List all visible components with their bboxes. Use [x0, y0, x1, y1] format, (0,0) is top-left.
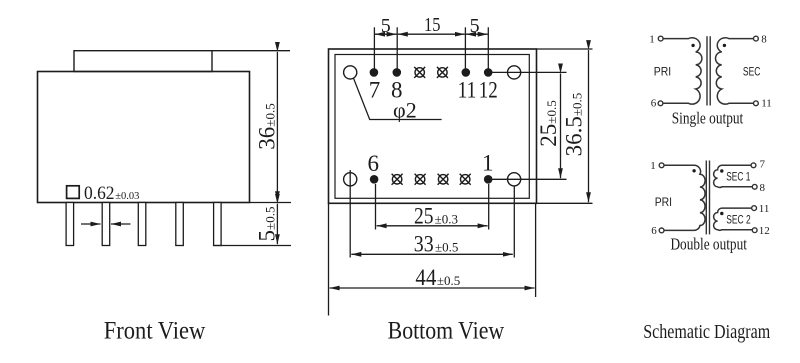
top extension lines from pins	[374, 27, 488, 70]
svg-text:6: 6	[651, 225, 657, 237]
extension line body bottom	[250, 202, 292, 204]
svg-text:0.62: 0.62	[84, 183, 115, 204]
svg-text:5: 5	[470, 15, 480, 37]
unused pin marks row1	[414, 67, 448, 78]
svg-text:Front View: Front View	[104, 318, 206, 345]
svg-text:6: 6	[651, 98, 657, 110]
primary winding T1	[663, 38, 702, 104]
svg-text:PRI: PRI	[654, 64, 671, 78]
extension line top (core)	[212, 50, 290, 52]
terminal 11	[754, 101, 759, 106]
svg-text:12: 12	[759, 225, 770, 237]
terminal 1	[658, 36, 663, 41]
core T2	[705, 161, 707, 235]
terminal 8	[754, 36, 759, 41]
terminal 1 (double)	[659, 163, 664, 168]
dimension 5 (7-8)	[375, 33, 397, 35]
pin P3 (front)	[138, 203, 146, 246]
SCHEMATIC: SINGLE OUTPUT	[658, 36, 758, 106]
terminal 12 (double)	[752, 228, 757, 233]
dimension 5±0.5	[276, 204, 278, 244]
right extension lines	[493, 49, 593, 203]
dimension 25±0.3	[377, 225, 488, 227]
svg-text:12: 12	[479, 78, 498, 103]
pin P1 (front)	[66, 203, 74, 246]
hole diameter label φ2 with leader	[354, 78, 442, 119]
svg-text:SEC 2: SEC 2	[726, 215, 751, 227]
mounting hole top-left	[344, 66, 357, 79]
dimension 33±0.5	[351, 253, 513, 255]
extension line pin bottom	[214, 245, 292, 247]
pin 12 pad	[484, 68, 493, 77]
svg-text:1: 1	[649, 33, 655, 45]
dimension 36.5±0.5 vertical	[588, 50, 590, 202]
pin 8 pad	[393, 68, 402, 77]
transformer body (front)	[38, 72, 250, 203]
pin P2 (front)	[102, 203, 110, 246]
svg-text:5: 5	[381, 15, 391, 37]
svg-text:7: 7	[369, 78, 381, 103]
mounting hole bottom-left	[344, 173, 357, 186]
terminal 11 (double)	[752, 206, 757, 211]
svg-text:SEC 1: SEC 1	[726, 172, 750, 184]
terminal 7 (double)	[751, 163, 756, 168]
svg-text:±0.5: ±0.5	[435, 240, 458, 255]
polarity dot SEC1	[720, 169, 723, 172]
pin 6 pad	[370, 175, 379, 184]
pin 1 pad	[484, 175, 493, 184]
mounting hole top-right	[507, 66, 520, 79]
pin 11 pad	[462, 68, 471, 77]
svg-text:±0.5: ±0.5	[437, 273, 460, 288]
dimension 15 (8-11)	[398, 33, 465, 35]
terminal 8 (double)	[752, 184, 757, 189]
svg-text:11: 11	[458, 78, 477, 103]
svg-text:±0.3: ±0.3	[435, 212, 458, 227]
svg-text:SEC: SEC	[743, 64, 761, 78]
svg-text:1: 1	[650, 160, 656, 172]
svg-text:φ2: φ2	[393, 98, 417, 123]
secondary winding SEC2	[714, 208, 753, 230]
svg-text:PRI: PRI	[655, 195, 672, 209]
dimension 44±0.5	[330, 287, 535, 289]
terminal 6	[658, 101, 663, 106]
polarity dot SEC2	[720, 212, 723, 215]
inner case rect	[335, 55, 529, 199]
svg-text:Bottom View: Bottom View	[388, 318, 505, 345]
polarity dot primary T1	[691, 44, 694, 47]
unused pin marks row2	[392, 174, 471, 185]
svg-text:8: 8	[760, 182, 766, 194]
svg-text:11: 11	[761, 98, 772, 110]
dimension 25±0.5 vertical	[560, 74, 562, 179]
svg-text:8: 8	[761, 33, 767, 45]
svg-text:1: 1	[482, 151, 494, 176]
core top cap	[74, 51, 212, 72]
pin P4 (front)	[176, 203, 184, 246]
pin width arrows	[81, 223, 131, 225]
svg-text:±0.03: ±0.03	[115, 191, 139, 202]
outer case rect	[329, 49, 537, 203]
core T1	[706, 36, 708, 105]
svg-text:Schematic Diagram: Schematic Diagram	[643, 321, 770, 343]
polarity dot primary T2	[692, 169, 695, 172]
dimension 36±0.5	[276, 52, 278, 201]
primary winding T2	[664, 165, 705, 230]
pin 7 pad	[370, 68, 379, 77]
pin P5 (front)	[214, 203, 222, 246]
svg-text:44: 44	[415, 265, 436, 290]
svg-text:6: 6	[368, 151, 380, 176]
bottom extension lines	[329, 170, 536, 316]
polarity dot secondary T1	[723, 44, 726, 47]
dimension 5 (11-12)	[466, 33, 488, 35]
mounting hole bottom-right	[507, 173, 520, 186]
secondary winding T1	[716, 38, 754, 104]
svg-text:33: 33	[414, 232, 434, 257]
terminal 6 (double)	[659, 228, 664, 233]
svg-text:15: 15	[424, 14, 441, 36]
SCHEMATIC: DOUBLE OUTPUT	[659, 161, 757, 235]
svg-text:7: 7	[760, 158, 766, 170]
svg-text:Double output: Double output	[670, 235, 747, 254]
secondary winding SEC1	[714, 165, 753, 187]
svg-text:11: 11	[759, 203, 770, 215]
svg-text:25: 25	[414, 204, 434, 229]
svg-text:Single output: Single output	[672, 109, 744, 128]
pin cross-section square symbol	[67, 186, 80, 199]
